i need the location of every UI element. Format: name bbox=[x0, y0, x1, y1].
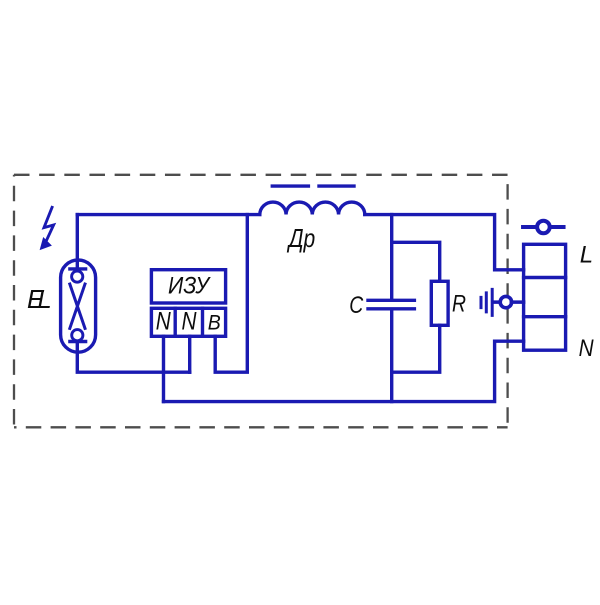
svg-text:N: N bbox=[579, 335, 595, 362]
svg-text:ИЗУ: ИЗУ bbox=[168, 273, 211, 300]
svg-text:N: N bbox=[182, 307, 198, 335]
svg-text:Др: Др bbox=[286, 223, 315, 253]
svg-text:N: N bbox=[156, 307, 172, 335]
svg-text:C: C bbox=[349, 292, 364, 319]
svg-text:B: B bbox=[208, 311, 221, 335]
svg-text:L: L bbox=[580, 242, 593, 269]
svg-text:R: R bbox=[452, 290, 466, 317]
